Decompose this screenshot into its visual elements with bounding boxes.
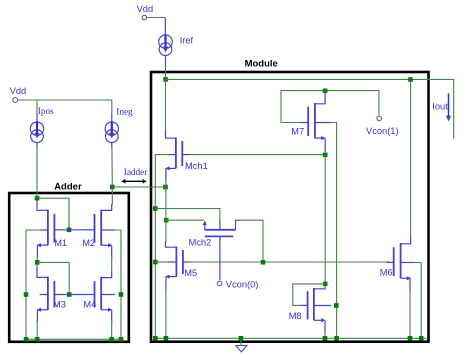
svg-text:M8: M8 bbox=[289, 311, 302, 321]
transistor M7 bbox=[300, 91, 331, 152]
wire left-rail to Mch2 bulk bbox=[155, 209, 220, 223]
transistor M2 bbox=[87, 204, 115, 258]
wire Iref to Module bbox=[165, 56, 167, 80]
svg-text:Iref: Iref bbox=[180, 35, 194, 45]
svg-text:M3: M3 bbox=[53, 299, 66, 309]
Iout label bbox=[432, 101, 448, 111]
wire Ipos to Adder bbox=[36, 143, 38, 196]
svg-text:Mch1: Mch1 bbox=[185, 161, 208, 171]
wire M2 drain from Ineg node bbox=[111, 187, 113, 205]
transistor M6 bbox=[387, 237, 415, 292]
wire M5 gate net to M6 gate bbox=[190, 261, 389, 263]
node Iref/top-rail junction bbox=[163, 77, 168, 82]
M5 label bbox=[184, 268, 197, 278]
node Mch2-drain on M5 gate net bbox=[261, 260, 266, 265]
wire Vdd rail left bbox=[18, 100, 112, 122]
node M8 bulk junction bbox=[334, 303, 339, 308]
svg-text:M1: M1 bbox=[54, 238, 67, 248]
wire M1 gate net bbox=[61, 229, 88, 231]
svg-text:Ineg: Ineg bbox=[116, 107, 133, 117]
wire M7 bulk to M8 bulk rail bbox=[330, 123, 337, 339]
node M8 drain/gate junction bbox=[323, 282, 328, 287]
Adder label bbox=[54, 182, 82, 193]
transistor Mch2 bbox=[203, 220, 240, 280]
wire Adder left rail (M1 bulk) bbox=[26, 230, 41, 339]
svg-text:Vdd: Vdd bbox=[10, 86, 27, 96]
node top-rail to M6 drain bbox=[408, 77, 413, 82]
M4 label bbox=[83, 299, 96, 309]
M7 label bbox=[291, 126, 304, 136]
node left-adder-rail to M3 bulk bbox=[24, 292, 29, 297]
wire Iadder net bbox=[112, 186, 165, 188]
Iout arrow bbox=[446, 94, 451, 122]
node Mch1 source / M5 drain bbox=[163, 185, 168, 190]
wire M2 bulk down bbox=[114, 230, 121, 339]
Mch1 label bbox=[185, 161, 208, 171]
node Ineg/Iadder bbox=[110, 185, 115, 190]
current source Iref bbox=[159, 35, 194, 56]
svg-text:Iadder: Iadder bbox=[124, 167, 147, 177]
wire M3 gate net bbox=[61, 294, 88, 296]
node bottom M8 source bbox=[323, 336, 328, 341]
node Ipos / M1 drain bbox=[35, 196, 40, 201]
node bottom M8 bulk bbox=[334, 336, 339, 341]
svg-text:M5: M5 bbox=[184, 268, 197, 278]
wire module top rail bbox=[166, 79, 454, 138]
svg-text:Module: Module bbox=[245, 58, 278, 69]
Iadder label bbox=[124, 167, 147, 177]
wire Ineg down bbox=[111, 143, 114, 185]
svg-text:M6: M6 bbox=[380, 268, 393, 278]
node adder rail M4 source bbox=[109, 337, 114, 342]
wire M5 bulk bbox=[155, 261, 170, 263]
svg-text:M4: M4 bbox=[83, 299, 96, 309]
node M4 bulk junction bbox=[119, 292, 124, 297]
wire M1 source to M3/M4 gate loop bbox=[37, 262, 69, 292]
Adder box bbox=[9, 193, 129, 342]
terminal Vcon(1) bbox=[366, 116, 399, 136]
wire M1 source down bbox=[36, 256, 38, 262]
wire Mch1 gate to M7 source node bbox=[190, 154, 325, 156]
wire M3 source to rail bbox=[36, 320, 38, 339]
node M3/M4 gates bbox=[67, 292, 72, 297]
M6 label bbox=[380, 268, 393, 278]
wire M5 source to bottom rail bbox=[165, 288, 167, 338]
transistor M5 bbox=[165, 241, 190, 290]
svg-text:Ipos: Ipos bbox=[38, 106, 54, 116]
svg-text:Vcon(1): Vcon(1) bbox=[366, 126, 399, 136]
ground bbox=[236, 346, 247, 353]
node M1 source / M3 drain bbox=[35, 260, 40, 265]
node M7 drain junction bbox=[323, 89, 328, 94]
M2 label bbox=[82, 238, 95, 248]
node left-rail to M5 bulk bbox=[153, 260, 158, 265]
wire Mch1-source node down to M5 drain bbox=[165, 187, 167, 242]
wire adder bottom rail bbox=[26, 338, 121, 340]
transistor M3 bbox=[36, 265, 62, 322]
svg-text:Vdd: Vdd bbox=[137, 4, 154, 14]
node bottom-left rail bbox=[153, 336, 158, 341]
current source Ipos bbox=[30, 106, 54, 143]
Module label bbox=[245, 58, 278, 69]
svg-text:Vcon(0): Vcon(0) bbox=[226, 279, 259, 289]
wire M7 source node down to M8 node bbox=[324, 155, 326, 284]
transistor Mch1 bbox=[165, 131, 190, 182]
Iadder double arrow bbox=[121, 179, 146, 184]
svg-text:M7: M7 bbox=[291, 126, 304, 136]
wire ground stub bbox=[240, 338, 242, 345]
wire Iref junction down to Mch1 drain bbox=[165, 79, 167, 132]
svg-text:M2: M2 bbox=[82, 238, 95, 248]
svg-text:Mch2: Mch2 bbox=[189, 238, 212, 248]
node bottom M6 source bbox=[408, 336, 413, 341]
wire Mch2 drain to M5 gate net bbox=[240, 220, 263, 262]
wire M6 drain from top rail bbox=[410, 80, 412, 239]
svg-text:Iout: Iout bbox=[432, 101, 448, 111]
M8 label bbox=[289, 311, 302, 321]
transistor M4 bbox=[87, 271, 115, 322]
node bottom M6 bulk bbox=[419, 336, 424, 341]
wire Vdd to Iref bbox=[147, 18, 166, 36]
wire M7 gate lead bbox=[281, 122, 301, 124]
wire Mch2 source net bbox=[166, 219, 203, 221]
wire Mch1 source down bbox=[165, 180, 167, 187]
Mch2 label bbox=[189, 238, 212, 248]
M1 label bbox=[54, 238, 67, 248]
wire M8 source to bottom rail bbox=[324, 332, 326, 338]
svg-text:Adder: Adder bbox=[54, 182, 82, 193]
wire Mch1 bulk / left rail bbox=[155, 155, 170, 339]
terminal Vcon(0) bbox=[217, 279, 258, 289]
M3 label bbox=[53, 299, 66, 309]
wire module bottom rail bbox=[155, 337, 426, 339]
wire M2 source to M4 drain bbox=[111, 256, 113, 272]
wire M6 source to bottom rail bbox=[409, 290, 411, 338]
node left-rail to Mch2 bulk bbox=[153, 206, 158, 211]
wire Ipos tap bbox=[36, 100, 38, 122]
node bottom M5 source bbox=[164, 336, 169, 341]
node M1/M2 gates bbox=[67, 228, 72, 233]
wire M7 drain top loop bbox=[281, 91, 379, 123]
node M5-drain line to Mch2 source bbox=[164, 218, 169, 223]
node bottom ground tap bbox=[239, 336, 244, 341]
wire M6 bulk down bbox=[414, 263, 421, 339]
node adder rail M3 source bbox=[35, 337, 40, 342]
wire M8 gate loop bbox=[293, 284, 325, 306]
Module box bbox=[151, 72, 429, 342]
terminal Vdd (left) bbox=[10, 86, 27, 102]
wire M4 source to rail bbox=[111, 320, 113, 339]
node adder rail left bbox=[24, 337, 29, 342]
wire M1 drain to gate loop bbox=[37, 198, 69, 227]
transistor M1 bbox=[36, 201, 62, 259]
transistor M8 bbox=[300, 287, 331, 335]
node adder rail M2/M4 bulk bbox=[119, 337, 124, 342]
terminal Vdd (top) bbox=[137, 4, 154, 20]
node M7 source / Mch1 gate bbox=[323, 153, 328, 158]
current source Ineg bbox=[105, 107, 133, 143]
